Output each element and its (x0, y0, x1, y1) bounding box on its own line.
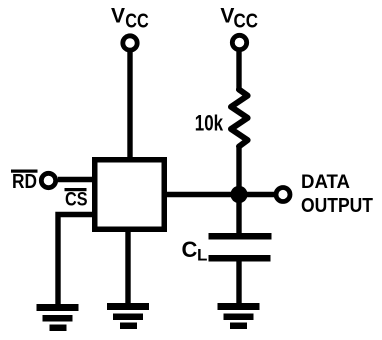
svg-text:OUTPUT: OUTPUT (301, 195, 373, 217)
power terminal VCC (right) (232, 35, 246, 49)
wire capacitor CL to right ground (236, 260, 241, 304)
svg-text:L: L (197, 246, 207, 265)
label RD (with overline) (11, 170, 38, 194)
wire VCC right terminal to resistor R1 (236, 52, 241, 92)
wire RD terminal to U1 (58, 177, 94, 182)
svg-text:V: V (220, 4, 234, 27)
IC U1 box (95, 160, 165, 230)
wire resistor R1 to node A (236, 148, 241, 196)
wire U1 output pin to node A (165, 192, 239, 197)
label CL (182, 237, 208, 265)
capacitor CL plates (209, 233, 272, 262)
wire CS pin of U1 to left ground (58, 215, 94, 305)
svg-text:C: C (182, 237, 198, 262)
wire node A to output terminal (239, 192, 274, 197)
svg-text:V: V (111, 4, 125, 27)
output terminal (276, 188, 290, 202)
label DATA OUTPUT (301, 172, 373, 217)
svg-text:DATA: DATA (301, 172, 350, 193)
label VCC (left) (111, 4, 149, 32)
power terminal VCC (left) (123, 36, 137, 50)
ground (middle, U1) (107, 303, 149, 329)
resistor R1 (10k) zigzag (231, 90, 248, 147)
svg-text:CS: CS (65, 190, 88, 211)
label VCC (right) (220, 4, 258, 32)
label CS (with overline) (65, 188, 88, 211)
ground (right, CL) (218, 303, 260, 329)
svg-text:CC: CC (125, 11, 149, 33)
wire U1 bottom pin to middle ground (125, 229, 130, 304)
ground (left, CS) (37, 304, 79, 331)
svg-text:RD: RD (12, 171, 37, 193)
wire node A to capacitor CL top plate (236, 195, 241, 234)
svg-text:CC: CC (234, 11, 259, 33)
svg-text:10k: 10k (195, 110, 224, 135)
wire VCC left terminal to U1 top pin (127, 52, 132, 160)
input terminal RD (41, 173, 55, 187)
node A junction dot (230, 186, 247, 203)
